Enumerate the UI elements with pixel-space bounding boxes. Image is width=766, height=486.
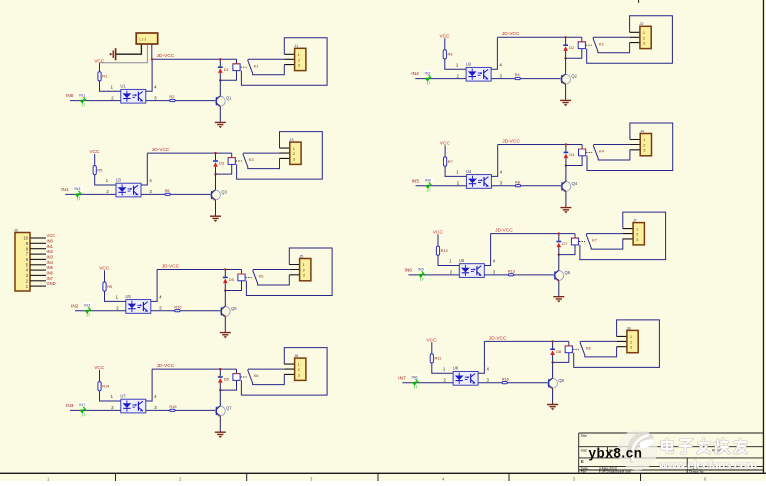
svg-text:10: 10 (23, 236, 28, 241)
wire VCC link to jumper JP1 (100, 44, 148, 63)
junction collector node (551, 361, 553, 363)
transistor Q3 (211, 174, 228, 216)
node IN3 (66, 403, 74, 409)
svg-text:IN1: IN1 (47, 244, 54, 249)
svg-text:R3: R3 (448, 52, 453, 57)
J6 pin stubs (284, 364, 294, 374)
svg-text:IN3: IN3 (84, 303, 90, 308)
U8 pin numbers (443, 367, 490, 383)
wire IN6 input net (409, 274, 555, 276)
svg-text:J3: J3 (289, 137, 293, 142)
wire U3 pin4 to JD-VCC (141, 153, 147, 185)
title block frame (579, 433, 763, 473)
resistor R10 (174, 304, 182, 311)
node JD-VCC (157, 53, 175, 59)
svg-text:D6: D6 (224, 377, 229, 382)
svg-text:R8: R8 (515, 179, 520, 184)
wire U5 pin4 to JD-VCC (151, 270, 157, 302)
connector J5 (299, 253, 311, 280)
resistor R2 (169, 94, 175, 101)
J1 pin stubs (284, 54, 294, 64)
node IN7 (398, 375, 406, 381)
junction collector node (219, 389, 221, 391)
svg-text:1 2 3: 1 2 3 (139, 38, 146, 42)
U2 pin numbers (456, 62, 503, 78)
svg-text:Size: Size (581, 449, 588, 453)
resistor R4 (515, 72, 521, 79)
relay K5 contact (253, 270, 290, 286)
node JD-VCC (162, 263, 180, 269)
relay K4 contact (593, 145, 630, 161)
wire JD-VCC rail (491, 233, 575, 235)
wire IN7 input net (402, 382, 548, 384)
svg-text:D2: D2 (569, 45, 574, 50)
svg-text:U6: U6 (459, 258, 465, 263)
svg-text:R4: R4 (515, 72, 521, 77)
ground (553, 297, 564, 303)
svg-text:D3: D3 (219, 161, 224, 166)
junction JD-VCC/diode (219, 58, 221, 60)
node VCC (427, 338, 438, 344)
svg-text:JD-VCC: JD-VCC (502, 138, 520, 144)
relay K7 coil (559, 234, 585, 255)
svg-text:IN0: IN0 (66, 93, 74, 99)
svg-text:Q5: Q5 (231, 306, 237, 311)
wire U8 pin4 to JD-VCC (478, 341, 484, 373)
jumper JP1 (136, 33, 158, 44)
svg-text:R7: R7 (448, 159, 453, 164)
J8 pin stubs (617, 336, 627, 346)
LED IN3 (input indicator) (83, 303, 93, 318)
svg-text:U8: U8 (453, 366, 459, 371)
svg-text:Q1: Q1 (226, 96, 232, 101)
node VCC (433, 230, 444, 236)
svg-text:JD-VCC: JD-VCC (162, 263, 180, 269)
title block texts (581, 434, 726, 474)
node VCC (440, 141, 451, 147)
opto-coupler U7 (120, 393, 145, 413)
svg-text:IN2: IN2 (425, 70, 431, 75)
svg-text:K7: K7 (592, 238, 597, 243)
node VCC (94, 365, 105, 371)
J0 pin 3 stub (26, 273, 46, 278)
diode D2 (563, 37, 574, 58)
diode D1 (218, 59, 229, 80)
node JD-VCC (502, 31, 520, 37)
resistor R14 (98, 370, 121, 401)
wire JD-VCC rail (484, 340, 568, 342)
node IN7 (J0) (47, 276, 54, 281)
connector J2 (640, 21, 652, 48)
resistor R6 (165, 188, 171, 195)
relay K8 contact (580, 341, 617, 357)
junction collector node (219, 79, 221, 81)
svg-text:U2: U2 (466, 62, 472, 67)
wire relay contact loop to J6 (241, 348, 327, 396)
relay K4 coil (566, 145, 592, 166)
opto-coupler U4 (466, 169, 491, 189)
svg-text:K3: K3 (249, 157, 254, 162)
node VCC (440, 33, 451, 39)
svg-text:JD-VCC: JD-VCC (502, 31, 520, 37)
svg-text:U3: U3 (116, 177, 122, 182)
node VCC (89, 149, 100, 155)
svg-text:IN7: IN7 (79, 402, 85, 407)
relay K6 contact (248, 369, 285, 385)
resistor R9 (103, 270, 126, 301)
relay K3 coil (216, 153, 242, 174)
svg-text:JD-VCC: JD-VCC (495, 228, 513, 234)
opto-coupler U5 (125, 294, 150, 314)
node JD-VCC (157, 363, 175, 369)
diode D6 (218, 369, 229, 390)
node JD-VCC (489, 335, 507, 341)
svg-text:Q7: Q7 (226, 406, 232, 411)
svg-text:K1: K1 (254, 63, 259, 68)
junction JD-VCC/diode (564, 36, 566, 38)
U5 pin numbers (116, 295, 163, 311)
svg-text:IN7: IN7 (47, 276, 54, 281)
svg-text:R14: R14 (102, 383, 110, 388)
svg-text:K4: K4 (599, 149, 605, 154)
svg-text:IN5: IN5 (418, 267, 424, 272)
sheet border bottom line (0, 473, 766, 474)
svg-text:R1: R1 (102, 74, 107, 79)
wire JD-VCC rail (498, 144, 582, 146)
watermark logo circle (617, 430, 657, 470)
junction JD-VCC/diode (558, 232, 560, 234)
watermark url text (658, 460, 757, 472)
wire U2 pin4 to JD-VCC (491, 37, 497, 69)
J5 pin stubs (289, 265, 299, 275)
svg-text:B: B (581, 459, 584, 464)
U6 pin numbers (449, 259, 496, 275)
wire relay contact loop to J5 (246, 248, 332, 296)
svg-text:IN3: IN3 (74, 186, 80, 191)
resistor R13 (508, 269, 515, 276)
svg-text:JD-VCC: JD-VCC (157, 53, 175, 59)
wire IN5 input net (416, 185, 562, 187)
J0 pin 5 stub (26, 262, 46, 267)
svg-text:J1: J1 (294, 43, 298, 48)
ground (220, 333, 231, 339)
J7 pin stubs (623, 229, 633, 239)
junction collector node (558, 253, 560, 255)
svg-text:K8: K8 (586, 345, 591, 350)
J0 pin 8 stub (26, 246, 46, 251)
wire JD-VCC rail (152, 368, 236, 370)
opto-coupler U3 (116, 177, 141, 197)
svg-text:D4: D4 (569, 152, 575, 157)
svg-text:IN2: IN2 (71, 303, 79, 309)
resistor R1 (98, 63, 121, 91)
transistor Q4 (561, 166, 578, 208)
svg-text:IN6: IN6 (405, 268, 413, 274)
LED IN3 (input indicator) (73, 186, 83, 201)
svg-text:U1: U1 (120, 84, 126, 89)
relay K5 coil (225, 270, 251, 291)
svg-text:IN4: IN4 (425, 178, 432, 183)
resistor R15 (169, 404, 176, 411)
connector J1 (294, 43, 306, 70)
svg-text:K2: K2 (599, 41, 604, 46)
wire IN0 input net (70, 100, 216, 102)
resistor R3 (443, 38, 466, 69)
wire U7 pin4 to JD-VCC (146, 369, 152, 401)
diode D7 (556, 234, 567, 255)
svg-text:J2: J2 (640, 21, 644, 26)
node IN3 (J0) (47, 255, 54, 260)
node GND (J0) (47, 281, 56, 286)
node JD-VCC (502, 138, 520, 144)
opto-coupler U2 (466, 62, 491, 82)
svg-text:R16: R16 (502, 376, 509, 381)
node JD-VCC (152, 147, 170, 153)
svg-text:File:: File: (581, 470, 587, 474)
relay K7 contact (586, 234, 623, 250)
U3 pin numbers (106, 178, 153, 194)
diode D4 (564, 145, 576, 166)
ground (547, 405, 558, 411)
svg-text:IN6: IN6 (412, 375, 418, 380)
transistor Q6 (554, 255, 571, 297)
svg-text:R15: R15 (169, 404, 176, 409)
svg-text:K6: K6 (254, 373, 259, 378)
svg-text:R13: R13 (508, 269, 515, 274)
svg-text:JD-VCC: JD-VCC (489, 335, 507, 341)
svg-text:Q2: Q2 (571, 74, 577, 79)
svg-text:IN5: IN5 (412, 178, 420, 184)
opto-coupler U8 (453, 366, 478, 386)
relay K8 coil (553, 341, 579, 362)
J0 pin 7 stub (26, 252, 46, 257)
U1 pin numbers (111, 84, 158, 100)
svg-text:R10: R10 (174, 304, 182, 309)
ground (215, 432, 226, 438)
wire JD-VCC rail (147, 152, 231, 154)
transistor Q7 (215, 390, 232, 432)
wire U1 pin4 to JD-VCC (146, 59, 152, 91)
relay K1 coil (220, 59, 246, 80)
relay K2 coil (566, 37, 592, 58)
opto-coupler U1 (120, 84, 145, 104)
wire IN3 input net (70, 409, 216, 411)
J0 pin 6 stub (26, 257, 46, 262)
junction collector node (564, 57, 566, 59)
LED IN1 (input indicator) (78, 92, 88, 107)
relay K6 coil (220, 369, 246, 390)
J4 pin stubs (630, 140, 640, 150)
svg-text:D5: D5 (229, 277, 234, 282)
LED IN6 (input indicator) (410, 374, 420, 389)
power ground (left of JP1) (110, 48, 116, 60)
node IN1 (J0) (47, 244, 54, 249)
svg-text:IN4: IN4 (47, 260, 54, 265)
svg-text:Q3: Q3 (221, 190, 227, 195)
node JD-VCC (495, 228, 513, 234)
LED IN7 (input indicator) (78, 402, 88, 417)
diode D8 (550, 341, 561, 362)
svg-text:IN4: IN4 (411, 71, 419, 77)
wire relay contact loop to J7 (580, 212, 666, 260)
connector J4 (640, 128, 652, 155)
node VCC (99, 266, 110, 272)
junction collector node (565, 164, 567, 166)
svg-text:IN5: IN5 (47, 265, 54, 270)
resistor R7 (444, 145, 467, 176)
svg-text:JD-VCC: JD-VCC (152, 147, 170, 153)
connector J6 (294, 353, 306, 380)
svg-text:GND: GND (47, 281, 56, 286)
svg-text:K5: K5 (259, 274, 264, 279)
wire JD-VCC rail (152, 58, 236, 60)
junction JD-VCC/diode (551, 340, 553, 342)
wire JP1 pin3 to JD-VCC (151, 44, 153, 59)
transistor Q1 (215, 80, 232, 122)
svg-text:U5: U5 (125, 294, 131, 299)
transistor Q8 (548, 362, 565, 404)
svg-text:IN7: IN7 (398, 375, 406, 381)
node IN2 (71, 303, 79, 309)
node IN2 (J0) (47, 249, 54, 254)
node IN4 (411, 71, 419, 77)
svg-text:R9: R9 (107, 284, 112, 289)
svg-text:D8: D8 (556, 349, 561, 354)
wire JD-VCC rail (497, 36, 581, 38)
J0 pin 9 stub (26, 241, 46, 246)
ground (560, 100, 571, 106)
svg-text:IN0: IN0 (47, 238, 54, 243)
resistor R11 (430, 342, 453, 373)
svg-text:www.elecfans.com: www.elecfans.com (658, 460, 757, 472)
wire IN1 input net (65, 193, 211, 195)
J0 pin 4 stub (26, 268, 46, 273)
resistor R8 (515, 179, 521, 186)
opto-coupler U6 (459, 258, 484, 278)
LED IN4 (input indicator) (423, 178, 433, 193)
svg-text:R5: R5 (97, 167, 102, 172)
svg-text:Q4: Q4 (572, 181, 578, 186)
node IN0 (J0) (47, 238, 54, 243)
svg-text:U4: U4 (466, 169, 472, 174)
diode D3 (213, 153, 224, 174)
node IN5 (J0) (47, 265, 54, 270)
junction JD-VCC/diode (214, 152, 216, 154)
transistor Q2 (561, 58, 578, 100)
svg-text:U7: U7 (120, 393, 126, 398)
svg-text:R11: R11 (435, 356, 442, 361)
node IN0 (66, 93, 74, 99)
node IN1 (61, 187, 69, 193)
J2 pin stubs (630, 32, 640, 42)
wire IN4 input net (415, 78, 561, 80)
junction collector node (214, 173, 216, 175)
svg-text:IN1: IN1 (61, 187, 69, 193)
svg-text:IN6: IN6 (47, 271, 54, 276)
node IN4 (J0) (47, 260, 54, 265)
watermark chinese text (662, 439, 746, 454)
junction JP1/JD-VCC (151, 58, 153, 60)
title text ybx8.cn (589, 445, 643, 460)
resistor R5 (93, 154, 116, 185)
svg-text:Q8: Q8 (558, 378, 564, 383)
connector J7 (633, 218, 645, 245)
junction JD-VCC/diode (224, 268, 226, 270)
relay K3 contact (243, 153, 280, 169)
sheet border right line (763, 0, 764, 474)
diode D5 (223, 270, 234, 291)
svg-text:R2: R2 (169, 94, 174, 99)
relay K2 contact (593, 37, 630, 53)
svg-text:ybx8.cn: ybx8.cn (589, 445, 643, 460)
transistor Q5 (220, 291, 237, 333)
svg-text:Q6: Q6 (565, 270, 571, 275)
connector J0 (input header) (14, 227, 30, 291)
node IN6 (J0) (47, 271, 54, 276)
node IN6 (405, 268, 413, 274)
svg-text:J8: J8 (627, 325, 631, 330)
svg-text:Title: Title (581, 434, 587, 438)
svg-text:D1: D1 (224, 67, 229, 72)
connector J8 (627, 325, 639, 352)
connector J3 (289, 137, 301, 164)
wire relay contact loop to J3 (237, 132, 323, 180)
LED IN5 (input indicator) (416, 267, 426, 282)
wire relay contact loop to J8 (574, 320, 660, 368)
svg-text:E:\PCB\jdk8\jdq8.ddb: E:\PCB\jdk8\jdq8.ddb (599, 470, 631, 474)
svg-text:IN2: IN2 (47, 249, 54, 254)
J0 pin 10 stub (23, 236, 46, 241)
svg-text:VCC: VCC (47, 233, 56, 238)
svg-text:JD-VCC: JD-VCC (157, 363, 175, 369)
relay K1 contact (248, 59, 285, 75)
svg-text:IN3: IN3 (47, 255, 54, 260)
ground (560, 208, 571, 214)
svg-text:R6: R6 (165, 188, 170, 193)
wire relay contact loop to J1 (241, 38, 327, 86)
wire U6 pin4 to JD-VCC (484, 234, 490, 266)
wire IN2 input net (75, 310, 221, 312)
svg-text:J6: J6 (294, 353, 298, 358)
junction JD-VCC/diode (565, 143, 567, 145)
node VCC (94, 58, 105, 64)
resistor R16 (502, 376, 509, 383)
svg-text:D7: D7 (562, 241, 567, 246)
U4 pin numbers (456, 170, 503, 186)
ground (215, 122, 226, 128)
svg-text:J7: J7 (633, 218, 637, 223)
wire relay contact loop to J4 (587, 123, 673, 171)
node IN5 (412, 178, 420, 184)
wire relay contact loop to J2 (587, 16, 673, 64)
junction JD-VCC/diode (219, 368, 221, 370)
J3 pin stubs (280, 148, 290, 158)
wire JD-VCC rail (157, 269, 241, 271)
node VCC (J0) (47, 233, 56, 238)
junction collector node (224, 289, 226, 291)
J0 pin 2 stub (26, 278, 46, 283)
svg-text:IN1: IN1 (79, 92, 85, 97)
J0 pin 1 stub (26, 284, 46, 289)
svg-text:J5: J5 (299, 253, 303, 258)
svg-text:IN3: IN3 (66, 403, 74, 409)
svg-text:R12: R12 (441, 248, 448, 253)
wire ground to JP1 pin1 (116, 44, 141, 54)
U7 pin numbers (111, 394, 158, 410)
wire U4 pin4 to JD-VCC (491, 145, 497, 177)
ground (210, 216, 221, 222)
resistor R12 (436, 235, 459, 266)
